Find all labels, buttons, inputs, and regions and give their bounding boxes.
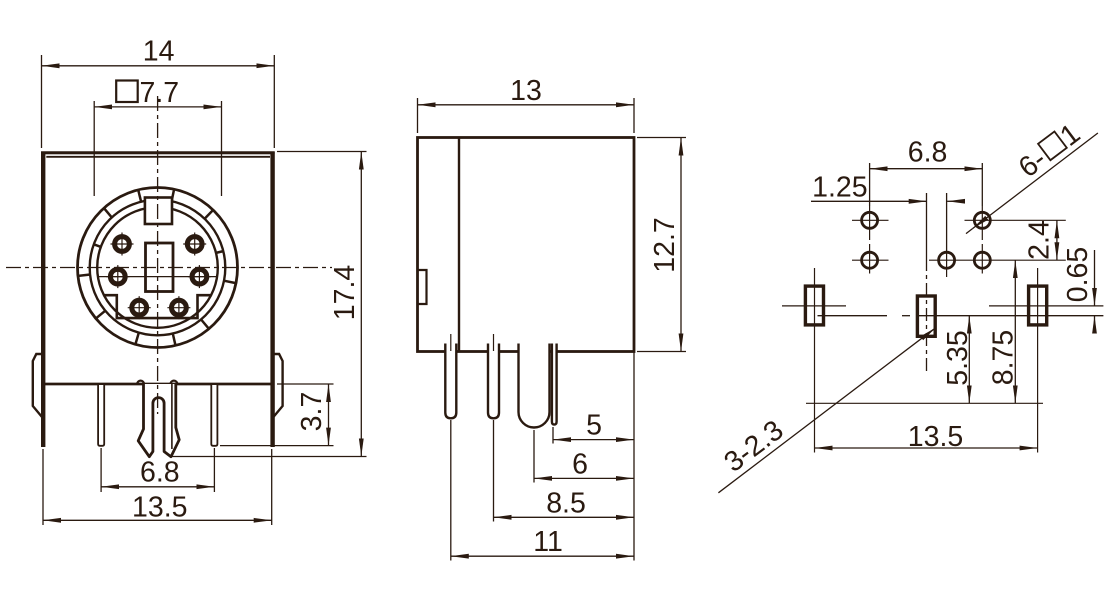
svg-text:0.65: 0.65 <box>1062 247 1094 302</box>
center rectangular slot <box>146 243 174 292</box>
pin 1 <box>111 233 134 256</box>
dimension 3.7 <box>220 384 334 446</box>
footprint middle slot <box>917 296 935 336</box>
dimension 13 <box>418 98 635 133</box>
footprint vertical centerline <box>926 258 928 374</box>
dimension 8.5 <box>494 420 635 522</box>
front view left mounting tab <box>33 354 42 417</box>
svg-text:14: 14 <box>143 36 175 68</box>
pin 3 <box>106 265 129 288</box>
footprint bottom reference line <box>806 402 1043 404</box>
svg-text:7.7: 7.7 <box>140 77 180 109</box>
dimension 0.65 <box>1094 250 1096 329</box>
footprint hole E <box>929 234 1066 274</box>
svg-text:8.5: 8.5 <box>546 487 586 519</box>
svg-text:6.8: 6.8 <box>140 457 180 489</box>
dimension 14 <box>42 55 275 148</box>
side view shield tab wide <box>519 344 550 428</box>
dimension 6.8 footprint <box>870 163 983 206</box>
shield top key notch <box>145 198 172 225</box>
svg-text:2.4: 2.4 <box>1024 220 1056 260</box>
footprint horizontal centerline offset <box>818 315 1104 317</box>
side view pin 1 <box>445 334 456 418</box>
side view pin 4 narrow <box>552 344 557 425</box>
dimension 8.75 <box>1014 260 1016 403</box>
footprint hole B <box>852 234 889 274</box>
label 6-square-1 leader <box>966 133 1098 234</box>
small bump right on body bottom <box>171 381 178 384</box>
svg-text:6.8: 6.8 <box>908 137 948 169</box>
dimension 6 <box>534 430 634 483</box>
front view shield middle circle <box>90 200 226 336</box>
footprint right slot <box>989 268 1103 453</box>
front view horizontal centerline <box>6 267 332 269</box>
pin 2 <box>183 233 206 256</box>
label 6-square-1 text <box>1013 118 1086 184</box>
svg-text:13: 13 <box>510 75 542 107</box>
label 3-2.3 leader <box>718 328 936 493</box>
svg-text:3.7: 3.7 <box>296 392 328 432</box>
svg-text:5: 5 <box>586 410 602 442</box>
svg-text:13.5: 13.5 <box>132 491 187 523</box>
front view connector body <box>41 152 275 448</box>
svg-text:13.5: 13.5 <box>908 421 963 453</box>
dimension 5.35 <box>968 316 970 404</box>
dimension 12.7 <box>637 138 686 352</box>
shield ring tick marks <box>78 189 236 345</box>
dimension 11 <box>451 420 634 561</box>
center fork pin <box>138 384 179 457</box>
dimension 17.4 <box>170 152 367 457</box>
dimension 13.5 footprint <box>815 447 1038 449</box>
front left solder pin <box>98 385 104 446</box>
dimension 5 <box>553 352 634 561</box>
svg-text:11: 11 <box>533 526 563 558</box>
pin 5 <box>128 296 151 319</box>
svg-text:1.25: 1.25 <box>812 171 867 203</box>
small bump left on body bottom <box>137 381 144 384</box>
side view latch window <box>418 270 427 304</box>
dimension 1.25 <box>811 193 962 258</box>
pin 4 <box>188 265 211 288</box>
shield bottom step contour <box>104 295 211 318</box>
svg-text:1: 1 <box>1054 118 1086 153</box>
side view pin 2 <box>488 334 499 418</box>
svg-text:3-2.3: 3-2.3 <box>718 414 789 479</box>
svg-text:12.7: 12.7 <box>649 217 681 272</box>
footprint left slot <box>782 268 846 453</box>
footprint hole C <box>939 251 955 278</box>
svg-text:8.75: 8.75 <box>988 330 1020 385</box>
dimension 13.5 front <box>43 449 272 525</box>
front view right mounting tab <box>273 354 282 417</box>
footprint hole D <box>965 206 1066 234</box>
front view vertical centerline <box>157 96 159 414</box>
front view shield outer circle <box>78 188 238 348</box>
dimension 6.8 front <box>101 448 214 492</box>
label 3-2.3 text <box>718 414 789 479</box>
svg-text:6-: 6- <box>1013 143 1052 184</box>
front right solder pin <box>211 385 217 446</box>
pin 6 <box>167 296 190 319</box>
side view body <box>418 138 635 352</box>
svg-text:17.4: 17.4 <box>329 265 361 321</box>
svg-text:5.35: 5.35 <box>942 330 974 385</box>
middle pin row line <box>98 276 218 278</box>
front view shield inner circle <box>97 207 218 328</box>
dimension square 7.7 <box>94 101 221 196</box>
svg-text:6: 6 <box>572 448 588 480</box>
dimension 2.4 <box>1056 220 1058 260</box>
footprint hole A <box>852 206 889 234</box>
